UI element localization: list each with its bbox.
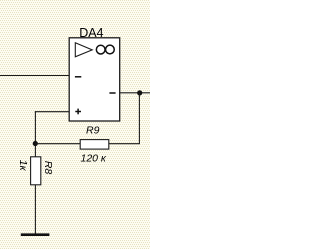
svg-text:1к: 1к xyxy=(17,160,29,172)
svg-text:120 к: 120 к xyxy=(81,153,107,165)
wire: inverting input net, horizontal from left edge to op-amp xyxy=(0,75,69,77)
resistor R9 body xyxy=(80,140,109,150)
op-amp DA4 reference designator label xyxy=(79,26,103,40)
op-amp non-inverting input plus marker xyxy=(75,109,81,115)
wire: feedback vertical from output dot down xyxy=(138,93,140,144)
resistor R9 reference label xyxy=(86,125,100,137)
svg-text:DA4: DA4 xyxy=(79,26,103,40)
op-amp infinity gain symbol xyxy=(96,45,114,54)
wire: feedback horizontal from vertical into R9 right terminal xyxy=(109,143,140,145)
ground bar symbol xyxy=(21,233,50,236)
resistor R8 reference label (rotated) xyxy=(42,161,54,175)
svg-text:R8: R8 xyxy=(42,161,54,175)
output junction dot xyxy=(137,90,142,95)
wire: output from op-amp right edge to image right edge xyxy=(120,92,150,94)
resistor R8 body xyxy=(31,157,41,185)
wire: vertical from non-inverting input down through node A to R8 xyxy=(34,111,36,157)
op-amp U DA4 rectangle body xyxy=(69,38,120,121)
op-amp amplifier triangle symbol xyxy=(75,43,92,57)
resistor R8 value label 1k (rotated) xyxy=(17,160,29,172)
wire: feedback horizontal from node A to R9 left terminal xyxy=(35,143,80,145)
op-amp inverting input minus marker xyxy=(75,76,81,78)
svg-text:R9: R9 xyxy=(86,125,100,137)
wire: from R8 bottom down to ground xyxy=(34,185,36,234)
node A junction dot xyxy=(33,141,38,146)
wire: non-inverting input, horizontal from node A to op-amp xyxy=(35,111,69,113)
op-amp output pin dash marker xyxy=(109,92,115,94)
resistor R9 value label 120 k xyxy=(81,153,107,165)
